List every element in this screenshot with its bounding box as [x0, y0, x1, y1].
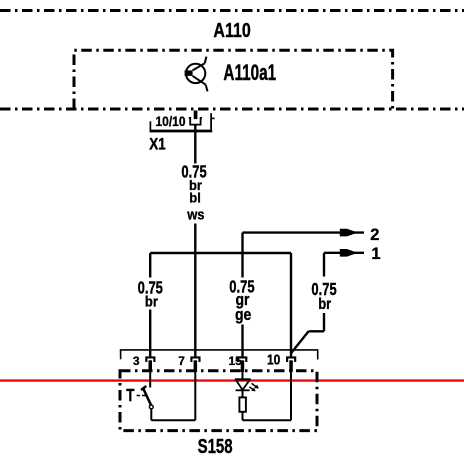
svg-text:1: 1	[371, 245, 380, 263]
svg-text:10/10: 10/10	[156, 113, 186, 129]
svg-text:15: 15	[229, 354, 243, 368]
svg-text:3: 3	[133, 354, 140, 368]
svg-text:X1: X1	[149, 136, 166, 153]
svg-text:A110: A110	[213, 19, 250, 41]
svg-text:br: br	[145, 293, 159, 310]
svg-text:ge: ge	[235, 306, 252, 324]
svg-text:T: T	[126, 386, 135, 405]
svg-text:7: 7	[178, 354, 185, 368]
svg-text:S158: S158	[198, 435, 233, 458]
svg-text:10: 10	[267, 351, 280, 367]
svg-text:br: br	[318, 296, 331, 313]
svg-text:2: 2	[370, 226, 379, 244]
svg-text:bl: bl	[189, 190, 201, 205]
svg-text:A110a1: A110a1	[223, 61, 276, 85]
svg-text:ws: ws	[186, 207, 205, 223]
